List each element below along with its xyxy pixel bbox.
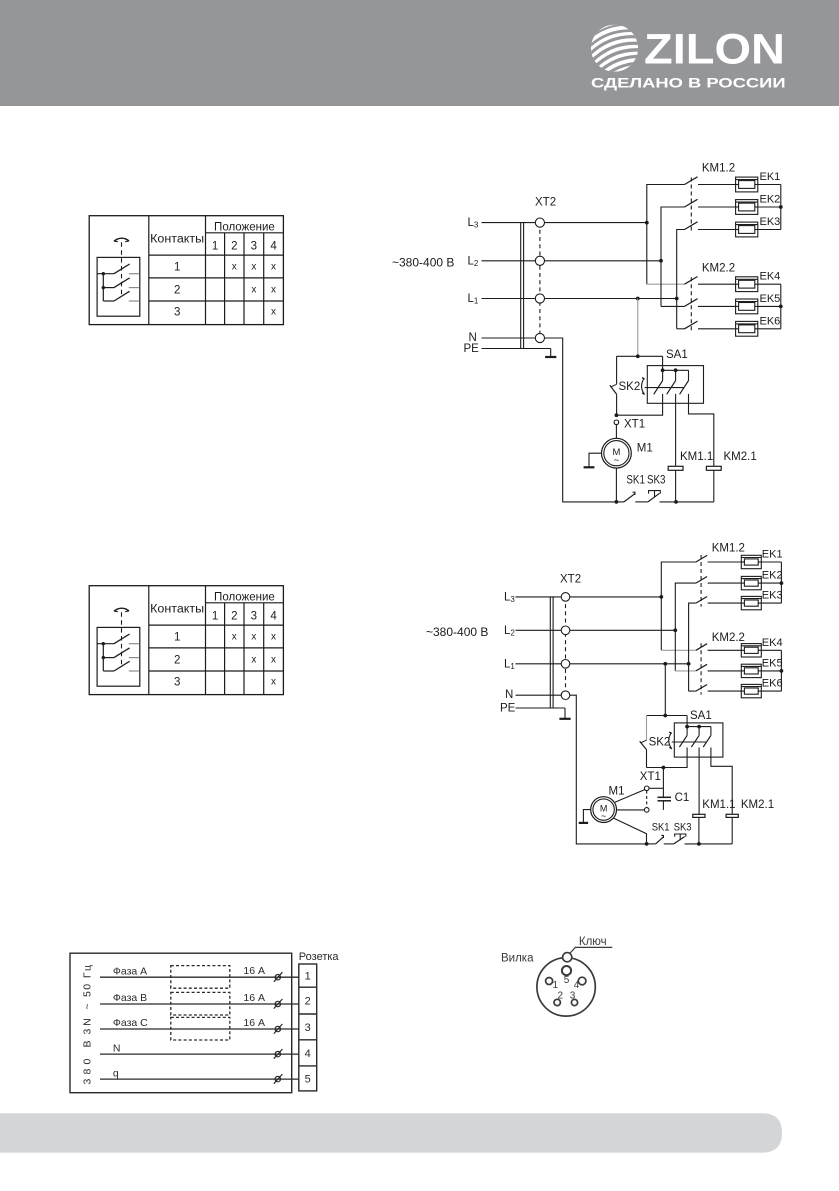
- svg-text:5: 5: [305, 1073, 311, 1085]
- svg-text:3: 3: [251, 241, 257, 253]
- svg-text:L3: L3: [468, 217, 479, 230]
- label 380 В 3N ~ 50 Гц: [81, 965, 93, 1085]
- disconnect symbol Фаза С: [274, 1024, 283, 1034]
- svg-text:4: 4: [574, 980, 580, 991]
- svg-text:KM2.2: KM2.2: [702, 263, 735, 275]
- svg-text:C1: C1: [675, 792, 690, 804]
- switch SK3 (schematic 1): [648, 491, 660, 502]
- disconnect symbol Фаза А: [274, 972, 283, 982]
- contactor contacts KM2.2 (schematic 2): [696, 643, 741, 694]
- svg-text:M1: M1: [637, 443, 653, 455]
- switch SK1 (schematic 2): [656, 835, 664, 844]
- svg-text:SK1: SK1: [652, 822, 670, 834]
- svg-text:3: 3: [174, 306, 180, 318]
- svg-text:EK5: EK5: [760, 293, 781, 305]
- plug pin 4: [578, 977, 586, 985]
- svg-text:PE: PE: [464, 343, 480, 355]
- wire N (schematic 2): [516, 694, 562, 696]
- wire L2 feeder (schematic 1): [661, 207, 685, 306]
- svg-text:N: N: [505, 689, 513, 701]
- wire L1 (schematic 1): [482, 298, 677, 300]
- switch position table (table 2): [89, 586, 283, 695]
- wire Фаза С: [100, 1028, 299, 1030]
- node L3 tap (schematic 1): [645, 221, 649, 225]
- thermostat SK2 (schematic 2): [640, 716, 672, 768]
- logo ZILON sphere: [582, 17, 648, 81]
- svg-text:EK4: EK4: [760, 271, 781, 283]
- wire motor to XT1 (schematic 2): [615, 790, 645, 803]
- heater EK2: [736, 200, 758, 215]
- leader Ключ: [568, 947, 613, 955]
- fuse box Фаза В: [171, 992, 230, 1015]
- terminal XT1 (schematic 2): [644, 786, 649, 812]
- node EK2 star (schematic 1): [779, 205, 783, 209]
- wire motor to bus (schematic 1): [615, 468, 617, 502]
- contactor contacts KM2.2 (schematic 1): [685, 277, 736, 333]
- svg-text:KM1.2: KM1.2: [702, 163, 735, 175]
- svg-text:L3: L3: [504, 591, 515, 604]
- cable double line (schematic 2): [549, 596, 551, 708]
- wire L3 (schematic 2): [516, 596, 662, 598]
- ground motor (schematic 2): [579, 810, 591, 823]
- heater EK3: [736, 222, 758, 237]
- svg-text:Вилка: Вилка: [501, 953, 534, 965]
- svg-text:ZILON: ZILON: [644, 26, 785, 73]
- svg-text:x: x: [251, 632, 256, 643]
- svg-text:x: x: [271, 285, 276, 296]
- wire Фаза А: [100, 976, 299, 978]
- plug pin 2: [554, 999, 560, 1005]
- wire L3 (schematic 1): [482, 222, 647, 224]
- node EK5 star (schematic 1): [779, 305, 783, 309]
- svg-text:Фаза С: Фаза С: [113, 1017, 148, 1029]
- svg-text:3: 3: [174, 676, 180, 688]
- node motor bus (schematic 2): [645, 842, 649, 846]
- node KM1.1 bus (schematic 1): [674, 500, 678, 504]
- svg-text:KM1.1: KM1.1: [702, 799, 735, 811]
- wire L1 feeder (schematic 1): [677, 230, 685, 329]
- svg-text:4: 4: [270, 611, 277, 623]
- wire N (schematic 1): [482, 337, 536, 339]
- plug key notch: [563, 953, 572, 962]
- fuse box Фаза А: [171, 966, 230, 989]
- heater EK3: [741, 596, 761, 609]
- svg-text:SK2: SK2: [649, 737, 671, 749]
- cable double line (schematic 1): [520, 222, 522, 349]
- svg-text:XT2: XT2: [560, 573, 581, 585]
- svg-text:16 А: 16 А: [243, 965, 265, 977]
- wire N to control bus (schematic 1): [545, 338, 617, 502]
- svg-text:3: 3: [570, 991, 576, 1002]
- node L2 tap (schematic 1): [659, 259, 663, 263]
- table row 3 (table 1): [174, 306, 276, 318]
- motor M1 (schematic 2): [591, 797, 617, 823]
- terminal XT1 (schematic 1): [614, 420, 619, 425]
- svg-text:EK4: EK4: [762, 637, 783, 649]
- svg-text:Фаза В: Фаза В: [113, 992, 147, 1004]
- svg-text:2: 2: [231, 241, 237, 253]
- node L2 tap (schematic 2): [673, 628, 677, 632]
- disconnect symbol N: [274, 1049, 283, 1059]
- wire EK4-EK6 star bus (schematic 1): [758, 284, 781, 329]
- wire motor to bus (schematic 2): [614, 818, 647, 844]
- heater EK6: [741, 684, 761, 697]
- svg-text:XT1: XT1: [624, 419, 645, 431]
- svg-text:L1: L1: [504, 658, 515, 671]
- power diagram frame: [70, 953, 292, 1092]
- wire EK1-EK3 star bus (schematic 1): [758, 185, 781, 230]
- svg-text:SK2: SK2: [619, 381, 641, 393]
- node KM1.1 bus (schematic 2): [697, 842, 701, 846]
- svg-text:XT2: XT2: [535, 197, 556, 209]
- svg-text:2: 2: [174, 284, 180, 296]
- svg-text:2: 2: [174, 654, 180, 666]
- svg-text:x: x: [271, 307, 276, 318]
- svg-text:3N ~: 3N ~: [81, 1004, 93, 1035]
- svg-text:Положение: Положение: [214, 591, 275, 603]
- svg-text:Контакты: Контакты: [150, 604, 204, 616]
- terminal block XT2 (schematic 2): [561, 593, 570, 700]
- svg-text:16 А: 16 А: [243, 992, 265, 1004]
- svg-text:50 Гц: 50 Гц: [81, 965, 93, 997]
- wire SA1 c1 to XT1 node (schematic 1): [616, 403, 662, 415]
- ground motor (schematic 1): [584, 453, 602, 467]
- switch SK1 (schematic 1): [624, 492, 636, 502]
- svg-text:1: 1: [174, 261, 180, 273]
- svg-text:M1: M1: [609, 786, 625, 798]
- svg-text:L2: L2: [468, 255, 479, 268]
- node EK5 star (schematic 2): [780, 669, 784, 673]
- svg-text:380 В: 380 В: [81, 1041, 93, 1085]
- svg-text:SA1: SA1: [690, 710, 712, 722]
- table position numbers (table 2): [212, 611, 277, 623]
- svg-text:x: x: [251, 262, 256, 273]
- plug pin 1: [546, 978, 553, 985]
- heater EK4: [741, 644, 761, 657]
- svg-text:KM2.1: KM2.1: [724, 451, 757, 463]
- svg-text:2: 2: [558, 991, 564, 1002]
- svg-text:SK3: SK3: [674, 822, 692, 834]
- svg-text:EK1: EK1: [760, 171, 781, 183]
- svg-text:2: 2: [231, 611, 237, 623]
- ground PE (schematic 1): [545, 349, 556, 358]
- svg-text:q: q: [113, 1067, 119, 1079]
- wire SA1 entry (schematic 2): [686, 716, 688, 727]
- contactor coil KM2.1 (schematic 2): [711, 757, 738, 844]
- svg-text:2: 2: [305, 996, 311, 1008]
- svg-text:x: x: [271, 262, 276, 273]
- svg-text:SA1: SA1: [666, 349, 688, 361]
- wire L3 feeder (schematic 1): [647, 185, 685, 285]
- wire PE (schematic 2): [516, 707, 566, 709]
- node L3 tap (schematic 2): [659, 595, 663, 599]
- plug body circle: [537, 958, 595, 1016]
- contactor contacts KM1.2 (schematic 2): [696, 555, 741, 607]
- node motor bus (schematic 1): [615, 500, 619, 504]
- wire L2 (schematic 1): [482, 260, 662, 262]
- svg-text:1: 1: [174, 631, 180, 643]
- svg-text:EK2: EK2: [760, 194, 781, 206]
- node EK2 star (schematic 2): [780, 581, 784, 585]
- svg-text:EK3: EK3: [762, 590, 783, 602]
- header gray band: [0, 0, 839, 106]
- svg-text:1: 1: [305, 971, 311, 983]
- switch position table (table 1): [89, 216, 283, 325]
- svg-text:EK5: EK5: [762, 657, 783, 669]
- svg-text:~380-400 В: ~380-400 В: [426, 625, 488, 639]
- heater EK1: [741, 555, 761, 568]
- svg-text:1: 1: [212, 241, 218, 253]
- svg-text:Контакты: Контакты: [150, 234, 204, 246]
- svg-text:Розетка: Розетка: [299, 951, 340, 963]
- motor M1 (schematic 1): [602, 438, 632, 468]
- svg-text:L1: L1: [468, 293, 479, 306]
- fuse box Фаза С: [171, 1017, 230, 1040]
- heater EK5: [741, 664, 761, 677]
- wire PE (schematic 1): [482, 348, 551, 350]
- wire L2 (schematic 2): [516, 629, 676, 631]
- svg-text:XT1: XT1: [640, 771, 661, 783]
- rotary switch symbol (table 2): [97, 608, 140, 686]
- svg-text:3: 3: [251, 611, 257, 623]
- wire control top (schematic 1): [617, 355, 663, 357]
- svg-text:4: 4: [270, 241, 277, 253]
- svg-text:x: x: [232, 262, 237, 273]
- heater EK5: [736, 299, 758, 314]
- wire SA1 entry (schematic 1): [662, 356, 664, 370]
- wire N: [100, 1053, 299, 1055]
- wire L1 control feeder (schematic 2): [663, 662, 667, 666]
- svg-text:Ключ: Ключ: [579, 936, 607, 948]
- wire N to control bus (schematic 2): [570, 695, 647, 844]
- node XT1 junction (schematic 1): [615, 413, 619, 417]
- svg-text:KM2.2: KM2.2: [712, 632, 745, 644]
- heater EK2: [741, 576, 761, 589]
- wire EK4-EK6 star bus (schematic 2): [761, 650, 781, 691]
- svg-text:KM1.2: KM1.2: [712, 543, 745, 555]
- rotary switch symbol (table 1): [97, 238, 140, 316]
- wire node to XT1 level (schematic 2): [662, 768, 664, 789]
- svg-text:СДЕЛАНО В РОССИИ: СДЕЛАНО В РОССИИ: [591, 76, 786, 92]
- wire EK1-EK3 star bus (schematic 2): [761, 562, 781, 603]
- svg-text:~: ~: [614, 455, 620, 466]
- wire L3 feeder (schematic 2): [661, 562, 696, 650]
- plug pin 5: [562, 966, 571, 975]
- wire q: [100, 1078, 299, 1080]
- svg-text:PE: PE: [500, 703, 516, 715]
- terminal block XT2 (schematic 1): [535, 218, 544, 343]
- svg-text:EK1: EK1: [762, 549, 783, 561]
- svg-text:EK2: EK2: [762, 570, 783, 582]
- wire L2 feeder (schematic 2): [675, 583, 696, 671]
- svg-text:x: x: [271, 655, 276, 666]
- terminal strip Розетка: [299, 964, 317, 1091]
- svg-text:16 А: 16 А: [243, 1017, 265, 1029]
- wire SA1 c1 drop (schematic 2): [647, 757, 688, 767]
- svg-text:L2: L2: [504, 625, 515, 638]
- node L1 tap (schematic 1): [675, 297, 679, 301]
- thermostat SK2 (schematic 1): [610, 356, 645, 415]
- disconnect symbol Фаза В: [274, 999, 283, 1009]
- svg-text:x: x: [251, 655, 256, 666]
- svg-text:4: 4: [305, 1048, 311, 1060]
- switch SK3 (schematic 2): [674, 834, 686, 844]
- wire control bus (schematic 1): [616, 501, 713, 503]
- svg-text:KM2.1: KM2.1: [741, 799, 774, 811]
- svg-text:~380-400 В: ~380-400 В: [392, 256, 454, 270]
- contactor coil KM1.1 (schematic 2): [693, 757, 705, 844]
- table row 3 (table 2): [174, 676, 276, 688]
- wire control top (schematic 2): [647, 715, 688, 717]
- svg-text:x: x: [251, 285, 256, 296]
- svg-text:x: x: [232, 632, 237, 643]
- footer gray bar: [0, 1113, 782, 1152]
- svg-text:x: x: [271, 677, 276, 688]
- wire Фаза В: [100, 1003, 299, 1005]
- contactor contacts KM1.2 (schematic 1): [685, 177, 736, 233]
- svg-text:~: ~: [601, 811, 606, 821]
- svg-text:SK1: SK1: [626, 474, 645, 486]
- node C1 junction (schematic 2): [662, 766, 666, 770]
- table row 1 (table 2): [174, 631, 276, 643]
- heater EK6: [736, 321, 758, 336]
- svg-text:x: x: [271, 632, 276, 643]
- table position numbers (table 1): [212, 241, 277, 253]
- wire motor to XT1 bottom (schematic 2): [617, 809, 645, 811]
- plug pin 3: [571, 999, 577, 1005]
- ground PE (schematic 2): [559, 708, 570, 719]
- cam switch SA1 (schematic 1): [645, 366, 704, 404]
- svg-text:5: 5: [564, 975, 570, 986]
- wire L1 control feeder (schematic 1): [636, 297, 640, 301]
- node L1 tap (schematic 2): [687, 662, 691, 666]
- disconnect symbol q: [274, 1074, 283, 1084]
- table row 2 (table 1): [174, 284, 276, 296]
- svg-text:SK3: SK3: [647, 474, 666, 486]
- capacitor C1 (schematic 2): [658, 788, 672, 810]
- table row 2 (table 2): [174, 654, 276, 666]
- contactor coil KM2.1 (schematic 1): [689, 403, 722, 502]
- svg-text:EK6: EK6: [760, 315, 781, 327]
- wire L1 (schematic 2): [516, 663, 689, 665]
- heater EK1: [736, 177, 758, 192]
- wire L1 feeder (schematic 2): [689, 603, 696, 691]
- svg-text:KM1.1: KM1.1: [680, 451, 713, 463]
- svg-text:Положение: Положение: [214, 221, 275, 233]
- svg-text:Фаза А: Фаза А: [113, 965, 147, 977]
- wire XT1 top (schematic 2): [649, 787, 663, 789]
- wire XT1 to motor (schematic 1): [615, 425, 617, 439]
- svg-text:3: 3: [305, 1022, 311, 1034]
- contactor coil KM1.1 (schematic 1): [668, 403, 683, 502]
- svg-text:EK3: EK3: [760, 216, 781, 228]
- svg-text:1: 1: [212, 611, 218, 623]
- svg-text:N: N: [113, 1042, 121, 1054]
- heater EK4: [736, 277, 758, 292]
- svg-text:EK6: EK6: [762, 678, 783, 690]
- svg-text:1: 1: [553, 980, 559, 991]
- wire control bus (schematic 2): [647, 843, 733, 845]
- table row 1 (table 1): [174, 261, 276, 273]
- cam switch SA1 (schematic 2): [672, 723, 723, 757]
